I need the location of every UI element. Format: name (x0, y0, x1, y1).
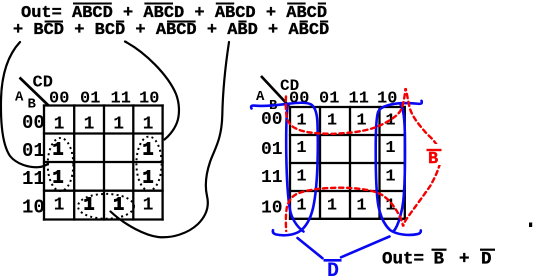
blue pointer line right to D label (341, 237, 390, 258)
svg-text:1: 1 (385, 167, 395, 186)
svg-text:01: 01 (261, 140, 283, 160)
svg-text:1: 1 (54, 114, 65, 134)
blue group: column 00 oval left side (286, 105, 303, 232)
svg-text:1: 1 (53, 168, 64, 188)
svg-text:1: 1 (327, 196, 337, 215)
svg-text:00: 00 (22, 112, 45, 134)
svg-text:B: B (428, 150, 438, 169)
svg-text:Out=: Out= (382, 250, 424, 270)
svg-text:10: 10 (22, 197, 45, 219)
dotted group oval row 10 cols 01-11 (78, 194, 134, 219)
blue group: column 00 oval main stroke with wrap tails (251, 101, 422, 258)
svg-text:1: 1 (84, 114, 95, 134)
svg-text:01: 01 (22, 140, 45, 162)
period dot right margin (529, 223, 532, 228)
svg-text:11: 11 (22, 168, 45, 190)
svg-text:1: 1 (113, 195, 124, 215)
svg-text:11: 11 (261, 168, 283, 188)
svg-text:1: 1 (113, 114, 124, 134)
svg-text:+: + (459, 250, 470, 270)
annotation curve from equation to left map column-00 group (1, 42, 48, 167)
svg-text:1: 1 (296, 139, 306, 158)
svg-text:01: 01 (319, 89, 339, 108)
svg-text:1: 1 (356, 196, 366, 215)
left k-map grid (43, 104, 164, 220)
svg-text:1: 1 (327, 112, 337, 131)
svg-text:1: 1 (54, 195, 65, 215)
left k-map row 00 ones (54, 114, 154, 134)
svg-text:11: 11 (349, 89, 369, 108)
svg-text:00: 00 (289, 89, 309, 108)
right k-map grid (289, 106, 406, 220)
svg-text:1: 1 (385, 139, 395, 158)
blue group: column 10 oval main stroke with wrap tails (376, 101, 422, 235)
svg-text:10: 10 (261, 199, 283, 219)
dotted group oval column 10 rows 01-11 (136, 137, 161, 191)
svg-text:B: B (28, 97, 37, 113)
red dashed group: rows 00 and 10 wrap loop (286, 88, 441, 231)
svg-text:A: A (15, 90, 24, 106)
equation line 1: Out= /A/B/C/D + /A/B/C D + /A/B C D + /A/B C /D (21, 4, 327, 24)
blue D-bar label (324, 260, 342, 280)
blue group: column 10 oval right side (394, 105, 405, 232)
svg-text:1: 1 (356, 112, 366, 131)
svg-text:1: 1 (296, 167, 306, 186)
svg-text:1: 1 (143, 140, 154, 160)
svg-text:B: B (434, 250, 445, 270)
left k-map circled bold ones rows 01/11 (53, 140, 154, 215)
svg-text:1: 1 (84, 195, 95, 215)
annotation curve from equation line 2 to left map row-10 group (111, 42, 230, 237)
blue pointer line left to D label (298, 238, 323, 258)
right k-map ones (296, 112, 395, 216)
svg-text:00: 00 (261, 110, 283, 130)
svg-text:+ BCD + BCD + ABCD + ABD + ABC: + BCD + BCD + ABCD + ABD + ABCD (13, 21, 329, 40)
annotation curve from equation to left map column-10 group (125, 42, 179, 140)
svg-text:1: 1 (296, 196, 306, 215)
svg-text:A: A (256, 89, 265, 105)
left k-map corner diagonal (20, 78, 49, 106)
svg-text:1: 1 (143, 114, 154, 134)
red B-bar label (424, 144, 443, 169)
svg-text:D: D (481, 250, 492, 270)
svg-text:1: 1 (296, 112, 306, 131)
svg-text:D: D (327, 260, 339, 280)
svg-text:1: 1 (143, 195, 154, 215)
svg-text:1: 1 (143, 168, 154, 188)
dotted group oval column 00 rows 01-11 (48, 138, 74, 191)
right k-map corner diagonal (261, 76, 289, 106)
svg-text:1: 1 (53, 140, 64, 160)
equation line 2: + B/C/D + BC/D + A/B/C/D + A/BD + A/BC/D (13, 21, 329, 40)
left k-map row 10 plain ones (54, 195, 154, 215)
